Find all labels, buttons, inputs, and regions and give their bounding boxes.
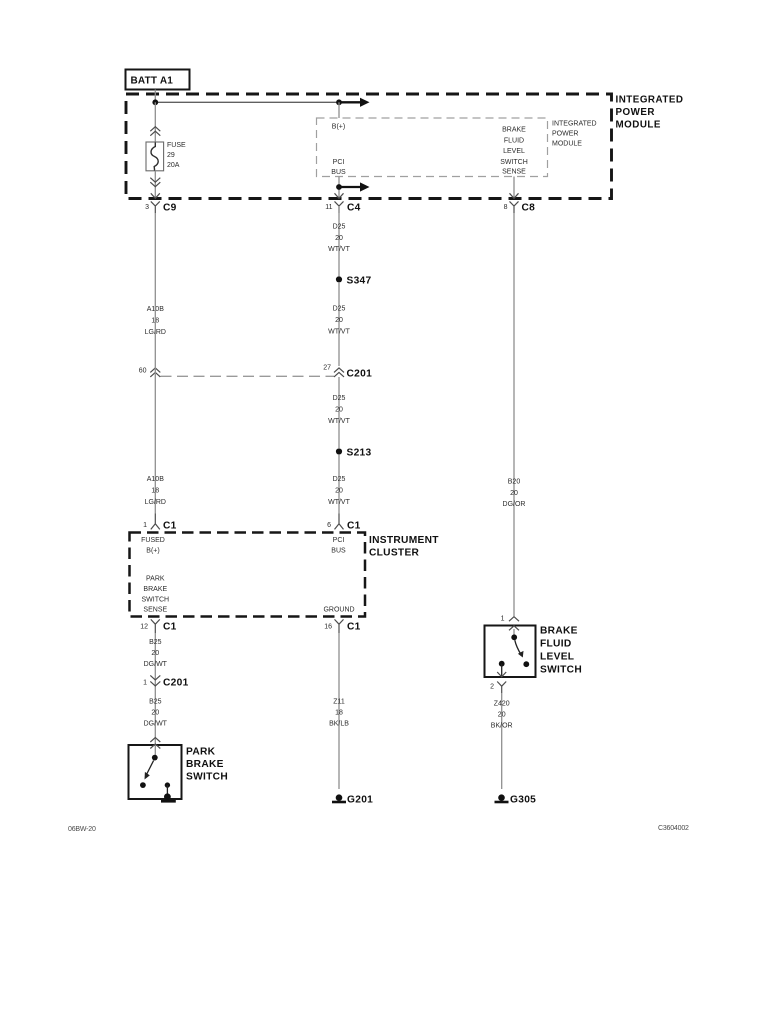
svg-text:Z420: Z420 <box>494 701 510 708</box>
svg-text:DG/OR: DG/OR <box>503 501 526 508</box>
svg-text:20: 20 <box>151 650 159 657</box>
svg-text:BK/OR: BK/OR <box>491 723 513 730</box>
svg-text:GROUND: GROUND <box>323 607 354 614</box>
svg-text:11: 11 <box>325 204 332 211</box>
svg-text:C4: C4 <box>347 203 361 214</box>
svg-text:MODULE: MODULE <box>552 140 582 147</box>
svg-text:27: 27 <box>323 365 331 372</box>
svg-text:2: 2 <box>490 684 494 691</box>
svg-text:20: 20 <box>498 712 506 719</box>
svg-text:C1: C1 <box>347 622 361 633</box>
svg-text:FLUID: FLUID <box>540 639 572 650</box>
svg-text:C201: C201 <box>347 369 373 380</box>
svg-text:1: 1 <box>501 616 505 623</box>
svg-text:INSTRUMENT: INSTRUMENT <box>369 535 439 546</box>
svg-text:C1: C1 <box>163 521 177 532</box>
svg-text:SWITCH: SWITCH <box>186 772 228 783</box>
svg-text:D25: D25 <box>333 395 346 402</box>
svg-text:DG/WT: DG/WT <box>144 721 168 728</box>
svg-text:B25: B25 <box>149 699 162 706</box>
svg-text:BATT A1: BATT A1 <box>131 76 174 87</box>
svg-text:G201: G201 <box>347 795 373 806</box>
svg-text:BK/LB: BK/LB <box>329 721 349 728</box>
svg-text:SWITCH: SWITCH <box>540 665 582 676</box>
svg-text:FLUID: FLUID <box>504 138 524 145</box>
svg-text:20: 20 <box>335 235 343 242</box>
svg-text:C201: C201 <box>163 678 189 689</box>
svg-text:BUS: BUS <box>331 548 346 555</box>
svg-text:POWER: POWER <box>552 130 578 137</box>
svg-text:D25: D25 <box>333 224 346 231</box>
svg-text:MODULE: MODULE <box>616 120 661 131</box>
svg-text:20A: 20A <box>167 162 180 169</box>
svg-text:CLUSTER: CLUSTER <box>369 548 420 559</box>
svg-text:LEVEL: LEVEL <box>503 148 525 155</box>
svg-text:12: 12 <box>140 624 148 631</box>
svg-text:20: 20 <box>510 490 518 497</box>
svg-text:WT/VT: WT/VT <box>328 246 350 253</box>
svg-text:LG/RD: LG/RD <box>145 499 166 506</box>
svg-text:B(+): B(+) <box>332 124 345 131</box>
svg-text:LEVEL: LEVEL <box>540 652 574 663</box>
svg-text:D25: D25 <box>333 476 346 483</box>
svg-text:C1: C1 <box>163 622 177 633</box>
svg-text:B25: B25 <box>149 639 162 646</box>
svg-text:D25: D25 <box>333 306 346 313</box>
svg-text:BRAKE: BRAKE <box>540 626 578 637</box>
svg-text:INTEGRATED: INTEGRATED <box>552 120 597 127</box>
svg-text:20: 20 <box>335 407 343 414</box>
svg-text:16: 16 <box>324 624 332 631</box>
svg-text:C9: C9 <box>163 203 177 214</box>
svg-text:6: 6 <box>327 522 331 529</box>
svg-text:18: 18 <box>335 710 343 717</box>
svg-text:G305: G305 <box>510 795 536 806</box>
svg-text:C1: C1 <box>347 521 361 532</box>
svg-text:POWER: POWER <box>616 107 656 118</box>
svg-text:SENSE: SENSE <box>502 169 526 176</box>
svg-text:20: 20 <box>335 488 343 495</box>
svg-text:BUS: BUS <box>331 169 346 176</box>
svg-text:60: 60 <box>139 368 147 375</box>
svg-text:WT/VT: WT/VT <box>328 418 350 425</box>
svg-text:SENSE: SENSE <box>143 607 167 614</box>
svg-text:BRAKE: BRAKE <box>502 127 526 134</box>
svg-text:S347: S347 <box>347 276 372 287</box>
svg-text:06BW-20: 06BW-20 <box>68 826 96 833</box>
svg-text:FUSED: FUSED <box>141 537 165 544</box>
svg-text:8: 8 <box>504 204 508 211</box>
svg-text:PCI: PCI <box>333 537 345 544</box>
svg-text:1: 1 <box>143 522 147 529</box>
svg-text:PCI: PCI <box>333 159 345 166</box>
svg-text:A10B: A10B <box>147 476 164 483</box>
svg-text:SWITCH: SWITCH <box>141 597 169 604</box>
svg-text:29: 29 <box>167 152 175 159</box>
svg-text:DG/WT: DG/WT <box>144 661 168 668</box>
svg-text:SWITCH: SWITCH <box>500 159 528 166</box>
svg-text:BRAKE: BRAKE <box>186 759 224 770</box>
svg-text:18: 18 <box>151 488 159 495</box>
svg-text:WT/VT: WT/VT <box>328 329 350 336</box>
svg-text:FUSE: FUSE <box>167 142 186 149</box>
svg-text:S213: S213 <box>347 448 372 459</box>
svg-text:20: 20 <box>151 710 159 717</box>
svg-text:1: 1 <box>143 680 147 687</box>
svg-text:C3604002: C3604002 <box>658 825 689 832</box>
svg-text:PARK: PARK <box>186 747 216 758</box>
svg-text:20: 20 <box>335 317 343 324</box>
svg-text:PARK: PARK <box>146 576 165 583</box>
svg-text:BRAKE: BRAKE <box>143 586 167 593</box>
svg-text:INTEGRATED: INTEGRATED <box>616 95 684 106</box>
svg-text:B20: B20 <box>508 479 521 486</box>
svg-text:C8: C8 <box>522 203 536 214</box>
svg-text:B(+): B(+) <box>146 548 159 555</box>
svg-text:Z11: Z11 <box>333 699 345 706</box>
svg-text:WT/VT: WT/VT <box>328 499 350 506</box>
svg-text:3: 3 <box>145 204 149 211</box>
